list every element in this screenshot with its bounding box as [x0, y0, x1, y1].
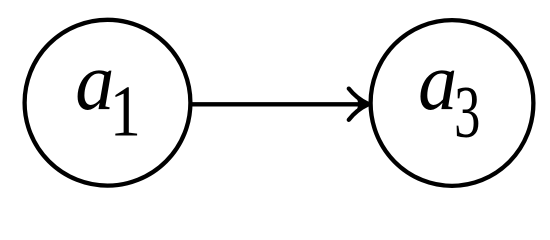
svg-text:a: a: [75, 36, 114, 127]
svg-text:1: 1: [110, 71, 141, 152]
label a1: [75, 36, 141, 152]
arrowhead: [349, 89, 369, 120]
label a3: [418, 36, 480, 153]
svg-text:a: a: [418, 36, 457, 127]
node a3 circle: [371, 20, 534, 186]
wire: edge from a1 to a3: [191, 102, 364, 106]
node a1 circle: [25, 20, 191, 186]
svg-text:3: 3: [454, 71, 480, 153]
